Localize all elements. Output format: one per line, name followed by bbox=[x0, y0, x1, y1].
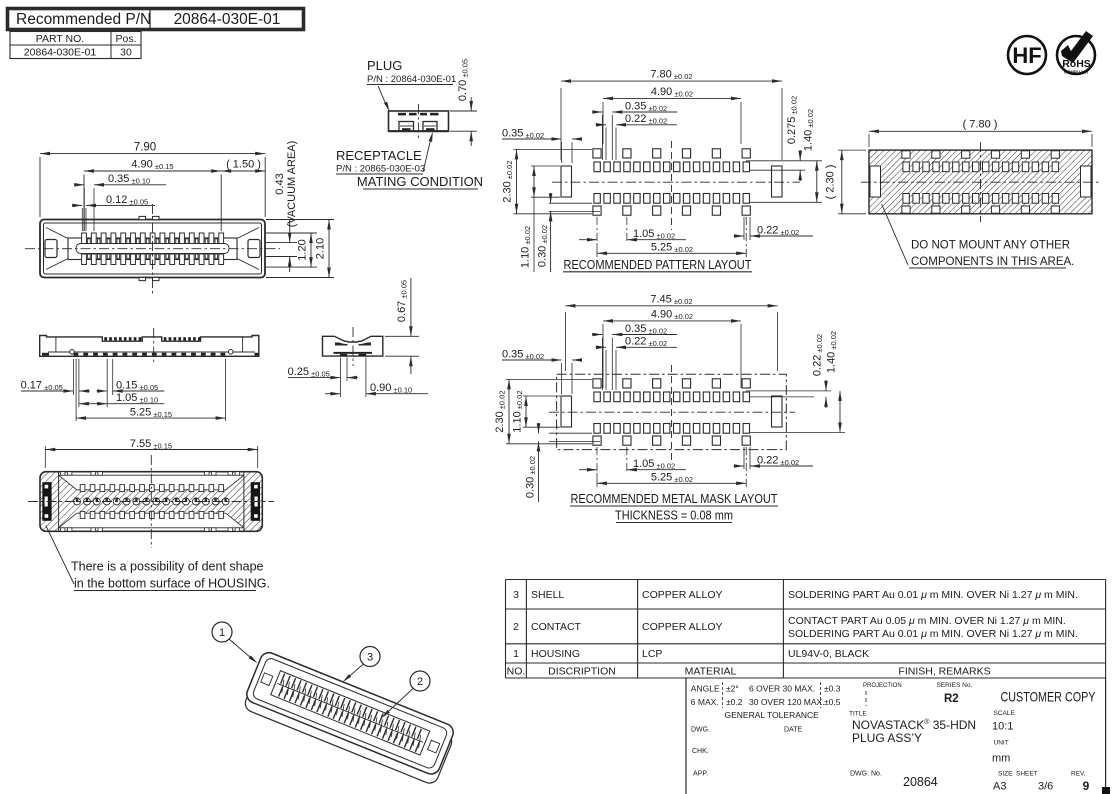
bottom view teeth rows bbox=[80, 485, 85, 492]
dim 2.30 pattern bbox=[514, 148, 593, 150]
dim 0.25 bbox=[339, 358, 341, 398]
mating condition base line bbox=[389, 130, 449, 132]
svg-text:CHK.: CHK. bbox=[692, 748, 709, 755]
dim 0.275 pattern right bbox=[746, 160, 822, 162]
dim 1.05 pattern bbox=[596, 217, 598, 243]
dim 0.15 bbox=[106, 359, 108, 407]
dim 1.20 bbox=[266, 232, 317, 234]
main view inter-teeth ticks bbox=[88, 239, 91, 244]
svg-text:SERIES No.: SERIES No. bbox=[937, 682, 973, 689]
svg-text:NO.: NO. bbox=[507, 666, 526, 678]
svg-text:P/N : 20864-030E-01: P/N : 20864-030E-01 bbox=[367, 74, 456, 85]
end view contact bars bbox=[335, 343, 348, 345]
end view body bbox=[323, 336, 383, 356]
metal mask centerlines bbox=[549, 411, 795, 413]
dim 1.10 pattern bbox=[531, 165, 560, 167]
svg-text:3: 3 bbox=[513, 589, 519, 601]
svg-text:HOUSING: HOUSING bbox=[531, 648, 580, 660]
svg-text:3: 3 bbox=[367, 652, 373, 664]
svg-text:±0.2: ±0.2 bbox=[726, 697, 743, 707]
dim 5.25 side bbox=[75, 359, 77, 421]
svg-text:Pos.: Pos. bbox=[115, 33, 136, 45]
svg-text:RECOMMENDED PATTERN LAYOUT: RECOMMENDED PATTERN LAYOUT bbox=[564, 257, 752, 272]
dim 0.35 pattern top bbox=[601, 115, 603, 160]
dim 4.90 main bbox=[83, 175, 85, 232]
svg-text:RoHS: RoHS bbox=[1062, 58, 1091, 70]
svg-text:SIZE: SIZE bbox=[998, 771, 1013, 778]
mating condition centerline bbox=[417, 104, 419, 138]
svg-text:2: 2 bbox=[513, 621, 519, 633]
svg-text:RECOMMENDED METAL MASK LAYOUT: RECOMMENDED METAL MASK LAYOUT bbox=[571, 491, 778, 506]
dim 0.35 mask top bbox=[601, 338, 603, 391]
svg-text:1.20: 1.20 bbox=[297, 239, 309, 260]
svg-text:SCALE: SCALE bbox=[994, 710, 1016, 717]
dim 5.25 pattern bbox=[596, 243, 598, 257]
side view bottom leads bbox=[74, 353, 79, 356]
bottom view centerlines bbox=[28, 501, 274, 503]
svg-text:±2°: ±2° bbox=[726, 684, 739, 694]
main view corner chamfers bbox=[46, 228, 68, 239]
svg-text:There is a possibility of dent: There is a possibility of dent shape bbox=[71, 560, 264, 574]
dim 5.25 mask bbox=[596, 473, 598, 487]
keep-out hatched body bbox=[869, 150, 1092, 214]
corner mark bbox=[1102, 787, 1110, 794]
dim 0.70 bbox=[450, 110, 477, 112]
svg-text:A3: A3 bbox=[993, 781, 1006, 793]
svg-text:PROJECTION: PROJECTION bbox=[863, 683, 902, 689]
dim 0.22 pattern bottom right bbox=[743, 217, 745, 240]
svg-text:MATING CONDITION: MATING CONDITION bbox=[357, 174, 483, 189]
recommended P/N table bbox=[8, 9, 304, 30]
side view bottom lead line bbox=[48, 351, 255, 353]
dim 7.55 bbox=[44, 446, 46, 468]
keep-out centerlines bbox=[861, 181, 1100, 183]
main top view body bbox=[40, 220, 265, 278]
dim 0.67 bbox=[385, 335, 419, 337]
dim 7.80 bbox=[560, 88, 562, 160]
svg-text:±0.3: ±0.3 bbox=[824, 684, 841, 694]
dim 7.90 bbox=[39, 157, 41, 217]
svg-text:10:1: 10:1 bbox=[992, 721, 1013, 733]
svg-text:SHEET: SHEET bbox=[1016, 771, 1038, 778]
receptacle leader arrow bbox=[423, 136, 432, 172]
svg-text:TITLE: TITLE bbox=[849, 711, 867, 718]
part number table bbox=[10, 32, 141, 59]
dim 1.40 pattern right bbox=[750, 201, 822, 203]
end view centerline bbox=[352, 327, 354, 366]
balloon 1 bbox=[212, 622, 232, 642]
svg-text:P/N : 20865-030E-03: P/N : 20865-030E-03 bbox=[336, 164, 425, 175]
svg-text:SOLDERING PART Au 0.01 μ m MIN: SOLDERING PART Au 0.01 μ m MIN. OVER Ni … bbox=[788, 628, 1078, 640]
svg-text:PLUG ASS’Y: PLUG ASS’Y bbox=[852, 731, 922, 745]
svg-text:SHELL: SHELL bbox=[531, 589, 564, 601]
svg-text:DISCRIPTION: DISCRIPTION bbox=[548, 666, 616, 678]
svg-text:3/6: 3/6 bbox=[1038, 781, 1053, 793]
svg-text:NOVASTACK® 35-HDN: NOVASTACK® 35-HDN bbox=[852, 718, 976, 732]
dim (7.80) bbox=[868, 134, 870, 147]
svg-text:APP.: APP. bbox=[693, 771, 708, 778]
isometric plug view bbox=[241, 650, 458, 786]
svg-text:COMPLIANT: COMPLIANT bbox=[1064, 70, 1089, 75]
dim 4.90 mask bbox=[602, 324, 604, 388]
pattern layout centerlines bbox=[552, 181, 800, 183]
svg-text:in the bottom surface of HOUSI: in the bottom surface of HOUSING. bbox=[74, 577, 270, 591]
svg-text:6 OVER 30 MAX.: 6 OVER 30 MAX. bbox=[749, 684, 815, 694]
svg-text:COMPONENTS IN THIS AREA.: COMPONENTS IN THIS AREA. bbox=[911, 256, 1074, 268]
dim 0.30 mask bbox=[549, 432, 592, 434]
svg-text:0.43: 0.43 bbox=[274, 173, 286, 194]
dim 2.30 mask bbox=[506, 378, 592, 380]
dim 4.90 pattern bbox=[602, 102, 604, 144]
dim 1.10 mask bbox=[523, 395, 560, 397]
bottom view shell slots bbox=[42, 482, 51, 521]
dim 7.45 bbox=[564, 312, 566, 371]
svg-text:DWG.: DWG. bbox=[691, 727, 710, 734]
main view contact teeth rows bbox=[82, 233, 87, 244]
keep-out note bbox=[882, 204, 908, 265]
svg-text:CONTACT: CONTACT bbox=[531, 621, 582, 633]
svg-text:PART NO.: PART NO. bbox=[36, 33, 84, 45]
svg-text:THICKNESS = 0.08 mm: THICKNESS = 0.08 mm bbox=[615, 509, 733, 523]
svg-text:HF: HF bbox=[1012, 43, 1041, 68]
bottom view dent note bbox=[46, 526, 74, 585]
dim 0.90 bbox=[365, 358, 367, 398]
svg-text:1: 1 bbox=[219, 627, 225, 639]
svg-text:DATE: DATE bbox=[784, 727, 802, 734]
svg-text:(VACUUM AREA): (VACUUM AREA) bbox=[286, 141, 298, 228]
HF icon bbox=[1008, 36, 1046, 74]
svg-text:DO NOT MOUNT ANY OTHER: DO NOT MOUNT ANY OTHER bbox=[911, 240, 1070, 252]
svg-text:SOLDERING PART Au 0.01 μ m MIN: SOLDERING PART Au 0.01 μ m MIN. OVER Ni … bbox=[788, 589, 1078, 601]
svg-text:( 2.30 ): ( 2.30 ) bbox=[825, 165, 837, 200]
dim 1.05 mask bbox=[596, 447, 598, 473]
main view end keys bbox=[45, 240, 57, 258]
dim 0.22 mask right bbox=[746, 390, 831, 392]
svg-text:9: 9 bbox=[1083, 779, 1090, 793]
pattern layout pads bbox=[561, 166, 572, 197]
RoHS icon bbox=[1057, 36, 1095, 74]
dim 0.22 pattern top bbox=[605, 128, 607, 161]
svg-text:±0.5: ±0.5 bbox=[824, 697, 841, 707]
metal mask pads bbox=[561, 396, 572, 427]
svg-text:MATERIAL: MATERIAL bbox=[685, 666, 737, 678]
keep-out clearance pads bbox=[870, 166, 881, 197]
svg-text:( 7.80 ): ( 7.80 ) bbox=[963, 119, 998, 131]
svg-text:2.10: 2.10 bbox=[315, 238, 327, 259]
dim 1.40 mask right bbox=[750, 432, 845, 434]
svg-text:mm: mm bbox=[992, 753, 1010, 765]
svg-text:PLUG: PLUG bbox=[367, 58, 402, 73]
side view centerline bbox=[153, 328, 155, 364]
dim 0.22 mask top bbox=[605, 350, 607, 390]
main view center channel bbox=[68, 238, 237, 260]
side view contact tips upper bbox=[104, 337, 107, 340]
dim 1.05 side bbox=[79, 403, 107, 405]
material table bbox=[506, 579, 1106, 581]
dim 0.43 vacuum area bbox=[266, 242, 297, 244]
balloon 2 bbox=[410, 671, 430, 691]
dim 0.35 main bbox=[83, 188, 85, 231]
svg-text:( 1.50 ): ( 1.50 ) bbox=[226, 159, 261, 171]
balloon 3 bbox=[360, 647, 380, 667]
svg-text:DWG. No.: DWG. No. bbox=[850, 771, 882, 778]
svg-text:30: 30 bbox=[120, 47, 132, 59]
svg-text:COPPER ALLOY: COPPER ALLOY bbox=[642, 621, 723, 633]
side view body bbox=[40, 336, 259, 357]
svg-text:CUSTOMER COPY: CUSTOMER COPY bbox=[1001, 689, 1096, 705]
svg-text:ANGLE: ANGLE bbox=[691, 684, 720, 694]
svg-text:GENERAL TOLERANCE: GENERAL TOLERANCE bbox=[725, 710, 820, 720]
end view bottom detail bbox=[334, 352, 373, 354]
bottom view funnel edges bbox=[59, 475, 77, 490]
title block borders bbox=[685, 678, 687, 794]
svg-text:R2: R2 bbox=[944, 693, 959, 705]
dim 0.30 pattern bbox=[549, 202, 592, 204]
dim 2.10 bbox=[266, 219, 334, 221]
plug leader arrow bbox=[378, 86, 388, 109]
dim (2.30) bbox=[838, 149, 866, 151]
svg-text:UNIT: UNIT bbox=[994, 740, 1009, 747]
svg-text:Recommended P/N: Recommended P/N bbox=[16, 11, 151, 28]
svg-text:1: 1 bbox=[513, 648, 519, 660]
svg-text:CONTACT PART Au 0.05 μ m MIN.: CONTACT PART Au 0.05 μ m MIN. OVER Ni 1.… bbox=[788, 615, 1066, 627]
dim 0.22 mask bottom right bbox=[743, 447, 745, 469]
dim 0.12 bbox=[81, 208, 83, 231]
svg-text:FINISH, REMARKS: FINISH, REMARKS bbox=[898, 666, 990, 678]
svg-text:20864-030E-01: 20864-030E-01 bbox=[24, 47, 97, 59]
dim (1.50) bbox=[221, 170, 265, 172]
metal mask outline bbox=[557, 374, 787, 449]
svg-text:2: 2 bbox=[417, 676, 423, 688]
main view centerlines bbox=[25, 248, 280, 250]
svg-text:REV.: REV. bbox=[1071, 771, 1086, 778]
svg-text:20864-030E-01: 20864-030E-01 bbox=[174, 11, 281, 28]
svg-text:20864: 20864 bbox=[903, 775, 938, 789]
svg-text:6 MAX.: 6 MAX. bbox=[691, 697, 719, 707]
svg-text:30 OVER 120 MAX.: 30 OVER 120 MAX. bbox=[749, 697, 825, 707]
mating condition section body bbox=[389, 111, 449, 131]
svg-text:RECEPTACLE: RECEPTACLE bbox=[336, 148, 422, 163]
svg-text:LCP: LCP bbox=[642, 648, 662, 660]
bottom view rim ticks bbox=[61, 472, 65, 476]
bottom view contact holes bbox=[74, 498, 81, 505]
dim 0.17 bbox=[72, 359, 74, 395]
svg-text:COPPER ALLOY: COPPER ALLOY bbox=[642, 589, 723, 601]
bottom view outline bbox=[40, 472, 262, 532]
svg-text:UL94V-0, BLACK: UL94V-0, BLACK bbox=[788, 648, 869, 660]
side view ejector marks bbox=[70, 350, 75, 355]
side view end walls bbox=[55, 337, 57, 352]
main view edge notches bbox=[139, 216, 146, 219]
svg-text:7.90: 7.90 bbox=[134, 142, 156, 154]
